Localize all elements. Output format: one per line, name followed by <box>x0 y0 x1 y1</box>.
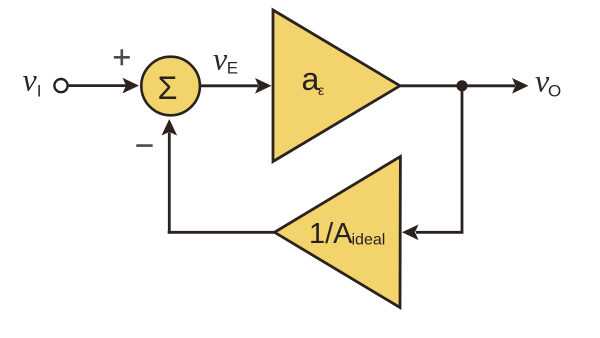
svg-text:a: a <box>302 61 320 97</box>
svg-text:1/A: 1/A <box>309 218 353 250</box>
svg-text:I: I <box>37 82 42 101</box>
svg-text:ideal: ideal <box>352 232 386 249</box>
svg-text:ε: ε <box>318 82 324 98</box>
svg-text:Σ: Σ <box>158 70 178 106</box>
svg-text:v: v <box>213 41 228 77</box>
svg-text:v: v <box>23 62 38 98</box>
svg-text:E: E <box>227 59 238 78</box>
svg-text:O: O <box>548 82 561 101</box>
